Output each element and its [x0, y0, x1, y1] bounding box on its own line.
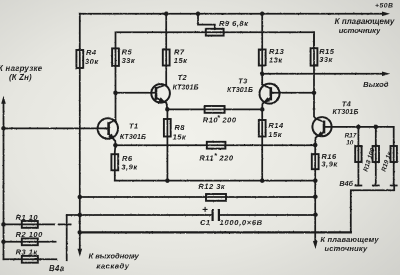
junction T1 emitter / R11 line [113, 143, 118, 148]
wire T4 emitter diagonal [315, 132, 324, 145]
arrowhead T1 emitter [108, 134, 115, 141]
arrowhead T3 emitter [263, 97, 270, 103]
svg-text:R11: R11 [199, 153, 214, 162]
svg-text:33к: 33к [122, 56, 136, 65]
svg-text:КТ301Б: КТ301Б [332, 109, 358, 116]
wire R2 lead [4, 241, 56, 243]
svg-text:33к: 33к [319, 55, 333, 64]
svg-text:3,9к: 3,9к [321, 160, 338, 169]
wire R8 lead [166, 109, 168, 180]
arrow to floating source (top right) [382, 12, 390, 17]
wire line A to right column [115, 180, 315, 182]
svg-text:30к: 30к [85, 57, 99, 66]
svg-text:15к: 15к [173, 132, 187, 141]
junction T4 base / R18 [374, 125, 379, 129]
switch V4b contact tick R19 [391, 185, 397, 187]
resistor R17 body [355, 146, 361, 162]
wire T4 base to B4b resistors [324, 126, 394, 128]
wire R6 lead from T1 emitter node [114, 145, 117, 180]
wire R12 line [80, 196, 316, 198]
resistor R15 body [311, 48, 318, 65]
svg-text:R6: R6 [122, 154, 133, 163]
svg-text:R8: R8 [174, 123, 185, 132]
svg-text:КТ301Б: КТ301Б [173, 85, 199, 92]
wire C1 line right segment [219, 214, 316, 216]
resistor R19 body [391, 146, 397, 162]
svg-text:К плавающему: К плавающему [320, 235, 379, 244]
junction line A / right column [313, 178, 318, 183]
svg-text:200: 200 [222, 116, 237, 125]
junction T4 emitter / R11 line [313, 143, 318, 148]
svg-text:С1: С1 [200, 218, 211, 227]
resistor R3 body [22, 256, 38, 263]
junction T4 base / R17 [356, 125, 361, 129]
switch V4b pole wire [351, 186, 394, 233]
svg-text:К выходному: К выходному [89, 251, 140, 260]
wire C1 line left segment [67, 214, 213, 216]
wire left rail (to load) [3, 103, 5, 259]
junction top rail / R13 [260, 12, 265, 16]
resistor R11 body [207, 142, 226, 149]
switch V4a moving contact dash [59, 223, 71, 225]
junction line A / R14 [260, 178, 265, 183]
arrowhead T4 emitter [316, 131, 323, 137]
arrow to floating source (bottom) [313, 241, 318, 249]
junction T3 base / R15 / T4 collector [312, 91, 317, 96]
transistor T4 KT301B [312, 117, 331, 136]
resistor R13 body [259, 50, 266, 66]
junction bus / R4 column [78, 230, 83, 235]
switch V4b contact tick R18 [373, 185, 379, 187]
transistor T2 KT301B [151, 84, 170, 103]
svg-text:R17: R17 [345, 132, 357, 139]
wire R15 lead [313, 32, 315, 93]
svg-text:Т3: Т3 [238, 76, 248, 85]
wire R11 line between T1 and T4 emitters [115, 144, 315, 146]
wire R18 lead [375, 127, 377, 186]
wire R9 right lead to R15 top [224, 32, 314, 48]
svg-text:В4а: В4а [49, 264, 65, 273]
resistor R9 6.8k body [206, 29, 224, 36]
svg-text:R4: R4 [86, 48, 97, 57]
resistor R1 body [22, 221, 38, 228]
junction output tap on R13 lead [260, 72, 265, 77]
svg-text:R3 1к: R3 1к [16, 248, 39, 257]
wire top +50V rail [80, 13, 382, 15]
svg-text:+50В: +50В [375, 3, 393, 10]
junction T1 base / left rail [1, 126, 6, 131]
wire R9 left lead to R5 riser [116, 32, 224, 122]
svg-text:Т4: Т4 [342, 99, 352, 108]
junction T3 emitter / R10 line [260, 107, 265, 112]
resistor R14 body [259, 120, 266, 137]
svg-text:15к: 15к [268, 130, 282, 139]
wire R4 column lead [79, 14, 81, 233]
wire T3 emitter diagonal [262, 98, 271, 110]
junction R12 line / right column [313, 195, 318, 200]
svg-text:13к: 13к [269, 55, 283, 64]
switch V4b contact tick R17 [355, 185, 361, 187]
resistor R12 body [206, 194, 226, 201]
svg-text:Т1: Т1 [129, 122, 139, 131]
svg-text:Т2: Т2 [178, 73, 188, 82]
svg-text:(К Zн): (К Zн) [9, 73, 32, 82]
resistor R2 body [22, 238, 38, 245]
svg-text:15к: 15к [174, 56, 188, 65]
label C1 plus sign [203, 207, 208, 212]
svg-text:R2 100: R2 100 [16, 230, 44, 239]
junction C1 line / right column [313, 213, 318, 218]
transistor T3 KT301B [260, 84, 280, 104]
svg-text:Выход: Выход [363, 80, 389, 89]
resistor R8 body [164, 119, 171, 137]
svg-text:R12 3к: R12 3к [198, 182, 226, 191]
junction T2 emitter / R10 line [165, 107, 170, 112]
svg-text:КТ301Б: КТ301Б [227, 87, 253, 94]
resistor R16 body [312, 154, 319, 169]
capacitor C1 plates [213, 209, 219, 221]
arrow output [382, 72, 390, 77]
resistor R6 body [111, 154, 118, 170]
arrow to load (up) [1, 96, 6, 104]
wire T1 base from left rail [4, 127, 108, 129]
svg-text:R14: R14 [268, 121, 284, 130]
svg-text:источнику: источнику [325, 244, 369, 253]
junction R5 lead / T2 base [113, 91, 118, 96]
wire R7 lead [165, 14, 167, 85]
resistor R4 body [76, 50, 83, 68]
junction line A / R8 [165, 178, 170, 183]
junction top rail / R9 branch [196, 12, 201, 16]
switch V4a pole [66, 215, 68, 260]
resistor R5 body [112, 48, 119, 66]
wire R10 line between emitters [167, 108, 262, 110]
svg-text:каскаду: каскаду [97, 262, 130, 271]
svg-text:10: 10 [346, 139, 354, 146]
wire T2 emitter diagonal [156, 98, 167, 110]
wire output (Vyhod) [262, 73, 381, 75]
wire R13 lead [261, 14, 263, 85]
svg-text:К плавающему: К плавающему [335, 17, 395, 26]
svg-text:источнику: источнику [339, 26, 381, 35]
wire T3 base to right column [271, 92, 314, 94]
resistor R7 body [163, 50, 170, 66]
wire arrow stem to output stage [79, 232, 81, 249]
svg-text:КТ301Б: КТ301Б [120, 134, 146, 141]
junction C1 line / R4 column [78, 213, 83, 218]
wire T2 base from R5 node [116, 92, 157, 94]
transistor T1 KT301B [98, 118, 118, 138]
arrowhead T2 emitter [159, 97, 166, 102]
wire R3 lead [4, 258, 57, 260]
svg-text:3,9к: 3,9к [121, 163, 138, 172]
wire R16 lead / right column down to arrow [314, 145, 316, 243]
junction left rail / R2 [1, 240, 6, 245]
junction R12 line / R4 column [78, 195, 83, 200]
wire bottom bus [80, 231, 351, 233]
wire R19 lead [393, 127, 395, 186]
junction left rail / R1 [1, 222, 6, 227]
wire R17 lead [357, 127, 359, 186]
resistor R18 body [373, 146, 379, 162]
wire T2 collector diagonal [156, 85, 166, 89]
junction top rail / R7 [164, 12, 169, 16]
wire T4 collector from node [314, 93, 324, 122]
wire T1 emitter diagonal [109, 134, 116, 145]
wire R9 tap from top rail [198, 14, 215, 29]
svg-text:220: 220 [219, 153, 234, 162]
wire R1 lead [4, 223, 55, 225]
svg-text:R9 6,8к: R9 6,8к [219, 19, 249, 28]
svg-text:К нагрузке: К нагрузке [0, 64, 43, 73]
wire T1 collector diagonal [109, 120, 116, 124]
wire T3 collector diagonal [262, 84, 271, 88]
svg-text:В4б: В4б [339, 179, 353, 188]
svg-text:R1 10: R1 10 [16, 213, 39, 222]
resistor R10 body [205, 106, 225, 113]
svg-text:1000,0×6В: 1000,0×6В [220, 218, 263, 227]
wire R14 lead [261, 109, 263, 180]
arrow to output stage (down) [78, 249, 83, 257]
